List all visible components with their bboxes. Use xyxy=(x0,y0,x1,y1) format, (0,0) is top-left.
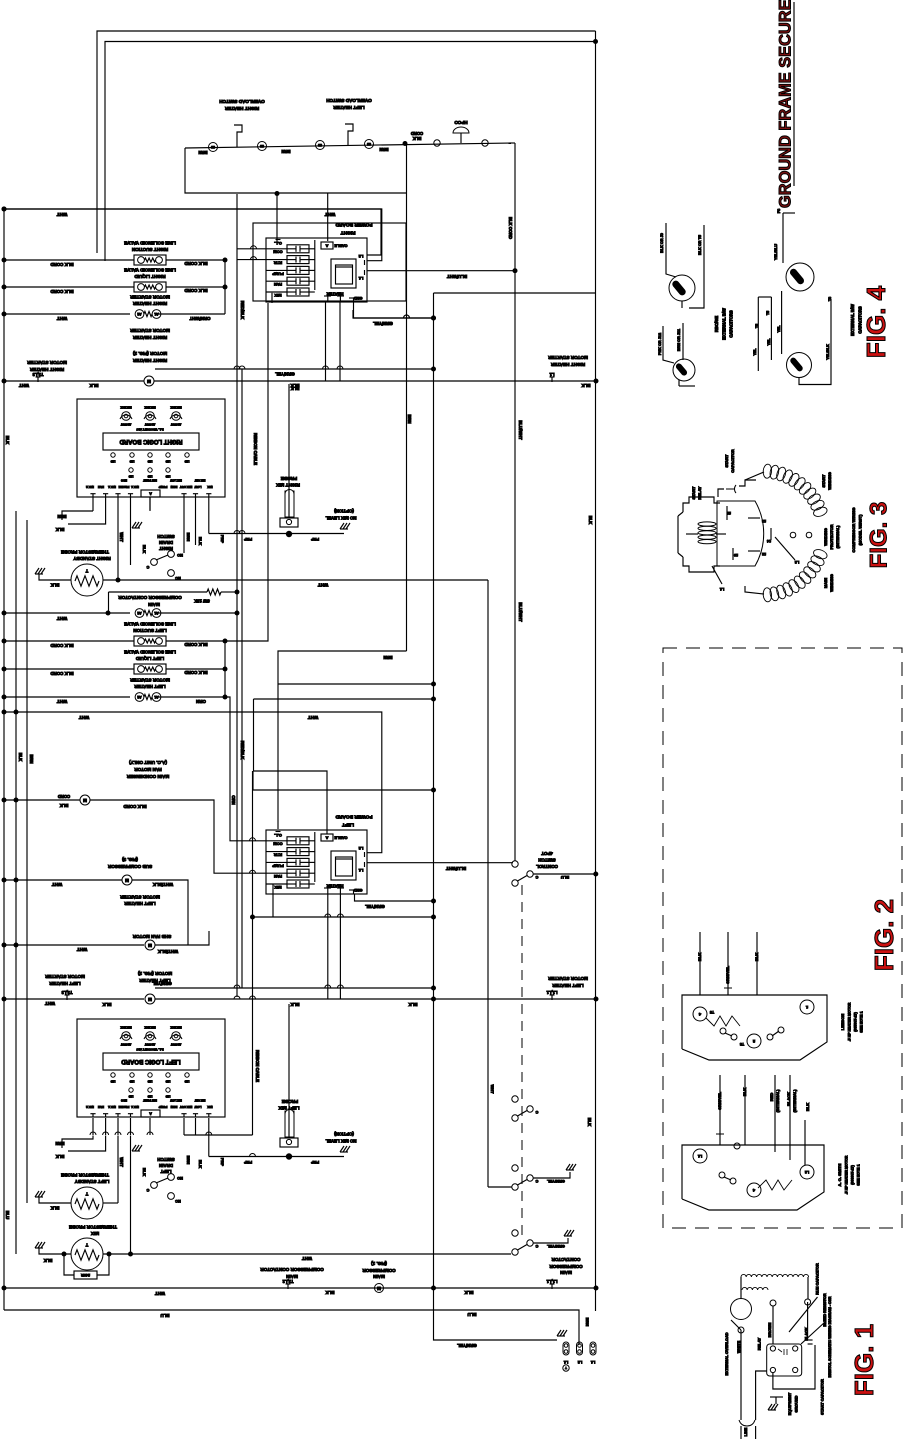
svg-text:BLK: BLK xyxy=(5,436,10,445)
svg-text:THERMISTOR PROBE: THERMISTOR PROBE xyxy=(61,1172,109,1177)
svg-text:MIX OUT: MIX OUT xyxy=(180,485,193,489)
svg-text:C: C xyxy=(146,565,149,569)
svg-text:PRP: PRP xyxy=(311,1160,320,1165)
svg-text:CORD: CORD xyxy=(58,794,70,799)
svg-text:(INTERNAL): (INTERNAL) xyxy=(792,1089,797,1113)
svg-text:MIX 1: MIX 1 xyxy=(108,1105,116,1109)
svg-text:COMPRESSOR: COMPRESSOR xyxy=(549,1264,583,1269)
svg-text:WHITE: WHITE xyxy=(737,1340,741,1353)
svg-text:RET PRINT: RET PRINT xyxy=(143,1098,157,1102)
svg-text:A2: A2 xyxy=(137,312,141,316)
svg-text:RUN CAPACITOR: RUN CAPACITOR xyxy=(816,1263,820,1295)
svg-text:SEE NOTE 1: SEE NOTE 1 xyxy=(859,1011,863,1032)
svg-text:ADJUST: ADJUST xyxy=(120,1042,131,1046)
svg-text:LOW: LOW xyxy=(194,1105,201,1109)
svg-text:SWITCH: SWITCH xyxy=(538,857,555,862)
svg-text:13: 13 xyxy=(762,519,766,523)
svg-text:MOTOR (FIG. 2): MOTOR (FIG. 2) xyxy=(132,351,167,356)
svg-text:BLK: BLK xyxy=(754,953,759,961)
svg-text:MIX MAX: MIX MAX xyxy=(120,1025,131,1029)
svg-text:LED: LED xyxy=(165,459,170,462)
svg-text:LEFT HEATER: LEFT HEATER xyxy=(134,684,166,689)
svg-text:(OPTION): (OPTION) xyxy=(334,508,354,513)
svg-text:YEL/BLK: YEL/BLK xyxy=(826,344,830,360)
svg-text:M: M xyxy=(377,1286,381,1291)
svg-text:T: T xyxy=(85,1242,88,1247)
svg-text:BLK: BLK xyxy=(51,1205,60,1210)
svg-text:BLU: BLU xyxy=(5,1211,10,1220)
svg-text:LED: LED xyxy=(110,1079,115,1082)
svg-text:L1,L1: L1,L1 xyxy=(546,1279,558,1284)
svg-text:COMPRESSOR: COMPRESSOR xyxy=(362,1268,396,1273)
svg-text:CAPACITOR: CAPACITOR xyxy=(730,449,735,473)
svg-text:SWITCH: SWITCH xyxy=(157,1157,174,1162)
svg-text:LED: LED xyxy=(165,474,170,477)
svg-text:COM: COM xyxy=(273,250,283,255)
svg-text:PRP: PRP xyxy=(220,1158,225,1167)
svg-text:LED: LED xyxy=(165,1094,170,1097)
svg-text:SUB COMPRESSOR: SUB COMPRESSOR xyxy=(107,864,152,869)
svg-text:WINDING: WINDING xyxy=(827,472,832,490)
svg-text:MOTOR STARTER: MOTOR STARTER xyxy=(130,294,170,299)
svg-text:T: T xyxy=(85,568,88,573)
svg-text:C: C xyxy=(535,875,538,879)
svg-text:RIGHT MIX: RIGHT MIX xyxy=(275,482,300,487)
svg-text:CORD: CORD xyxy=(411,131,423,136)
svg-text:GRN/YEL: GRN/YEL xyxy=(547,1179,565,1184)
svg-text:RED: RED xyxy=(769,1093,774,1102)
svg-text:BLK OR T5: BLK OR T5 xyxy=(698,235,702,255)
svg-text:RIGHT HEATER: RIGHT HEATER xyxy=(224,106,259,111)
svg-text:RIGHT HEATER: RIGHT HEATER xyxy=(550,362,585,367)
svg-text:T5: T5 xyxy=(710,1010,714,1014)
svg-text:RIBBON CABLE: RIBBON CABLE xyxy=(255,1050,260,1082)
svg-text:LEFT LOGIC BOARD: LEFT LOGIC BOARD xyxy=(121,1058,181,1064)
svg-text:BRN: BRN xyxy=(55,1141,64,1146)
svg-text:F8: F8 xyxy=(777,209,781,213)
svg-text:MIX MAX: MIX MAX xyxy=(144,405,155,409)
svg-text:BRISTOL SCHEMATIC WIRING DIAGR: BRISTOL SCHEMATIC WIRING DIAGRAM - CSR xyxy=(828,1296,832,1377)
svg-text:START: START xyxy=(821,474,826,488)
svg-text:14: 14 xyxy=(767,539,771,543)
svg-text:BLU/WHT: BLU/WHT xyxy=(446,866,467,871)
svg-text:T5: T5 xyxy=(766,311,770,315)
svg-text:LINE SOLENOID VALVE: LINE SOLENOID VALVE xyxy=(124,267,176,272)
svg-text:GRN/YEL: GRN/YEL xyxy=(547,1244,565,1249)
svg-text:PUMP: PUMP xyxy=(272,863,284,868)
svg-text:MIX 1: MIX 1 xyxy=(131,485,139,489)
svg-text:MIX: MIX xyxy=(274,885,281,890)
svg-text:BLACK: BLACK xyxy=(786,1092,791,1106)
svg-text:(035097-27): (035097-27) xyxy=(853,1011,857,1031)
svg-text:RET PRINT: RET PRINT xyxy=(143,478,157,482)
svg-text:BLK: BLK xyxy=(290,1002,300,1007)
svg-text:MAIN CONDENSER: MAIN CONDENSER xyxy=(126,774,169,779)
svg-text:BLK CORD: BLK CORD xyxy=(184,670,207,675)
svg-text:COMPRESSOR CONTACTOR: COMPRESSOR CONTACTOR xyxy=(118,595,182,600)
svg-text:BLK CORD: BLK CORD xyxy=(50,671,73,676)
svg-text:RTR: RTR xyxy=(274,853,282,858)
svg-text:MOTOR STARTER: MOTOR STARTER xyxy=(130,677,170,682)
svg-text:GROUND FRAME SECURELY: GROUND FRAME SECURELY xyxy=(776,0,794,208)
svg-text:YEL/BLU: YEL/BLU xyxy=(774,244,778,261)
svg-text:LEFT HEATER: LEFT HEATER xyxy=(49,981,81,986)
svg-text:96: 96 xyxy=(211,145,215,149)
svg-text:L1: L1 xyxy=(698,1154,702,1158)
svg-text:BRN: BRN xyxy=(57,514,66,519)
svg-text:C: C xyxy=(535,1244,538,1248)
svg-text:WHT: WHT xyxy=(79,715,90,720)
svg-text:PRP: PRP xyxy=(244,1160,253,1165)
svg-text:BLK CORD: BLK CORD xyxy=(184,642,207,647)
svg-text:NO MIX LEVEL: NO MIX LEVEL xyxy=(325,515,356,520)
svg-text:DRM: DRM xyxy=(170,485,177,489)
svg-text:EXTERNAL B/W: EXTERNAL B/W xyxy=(850,304,855,336)
svg-text:L1: L1 xyxy=(720,587,724,591)
svg-text:10: 10 xyxy=(734,553,738,557)
svg-text:RIGHT HEATER: RIGHT HEATER xyxy=(132,335,167,340)
svg-text:MOTOR STARTER: MOTOR STARTER xyxy=(120,894,160,899)
svg-text:LED: LED xyxy=(147,1079,152,1082)
svg-text:(A.C. UNIT ONLY): (A.C. UNIT ONLY) xyxy=(129,760,167,765)
svg-text:L1: L1 xyxy=(358,868,363,873)
svg-text:WINDING: WINDING xyxy=(829,574,834,592)
svg-text:LED: LED xyxy=(147,459,152,462)
svg-text:BLK CORD: BLK CORD xyxy=(184,288,207,293)
svg-text:L1: L1 xyxy=(564,1360,568,1364)
svg-text:WHT: WHT xyxy=(490,1084,495,1094)
svg-text:CONTROL: CONTROL xyxy=(536,864,558,869)
svg-text:.5 HP HEATER MOTOR: .5 HP HEATER MOTOR xyxy=(844,1155,848,1194)
svg-text:BLK: BLK xyxy=(588,516,593,525)
svg-text:LEESON: LEESON xyxy=(840,1014,845,1031)
svg-text:PROTECTOR: PROTECTOR xyxy=(829,524,834,549)
svg-text:PNK OR J12: PNK OR J12 xyxy=(658,333,662,355)
svg-text:MAIN: MAIN xyxy=(147,602,159,607)
svg-text:M: M xyxy=(148,943,152,948)
svg-text:T3,L3: T3,L3 xyxy=(61,990,73,995)
svg-text:BRN OR J11: BRN OR J11 xyxy=(677,329,681,351)
svg-text:LEFT HEATER: LEFT HEATER xyxy=(124,901,156,906)
svg-text:D.L. VISCOSITY ADJ: D.L. VISCOSITY ADJ xyxy=(136,427,164,431)
svg-text:ADJUST: ADJUST xyxy=(144,1042,155,1046)
svg-text:A2: A2 xyxy=(137,695,141,699)
svg-text:BLK: BLK xyxy=(697,953,702,961)
svg-text:BRN: BRN xyxy=(379,147,388,152)
svg-text:MCO: MCO xyxy=(121,1098,127,1102)
svg-text:ADJUST: ADJUST xyxy=(170,422,181,426)
svg-text:LED: LED xyxy=(110,459,115,462)
svg-text:RIGHT HEATER: RIGHT HEATER xyxy=(132,358,167,363)
svg-text:LED: LED xyxy=(184,1079,189,1082)
svg-text:PUMP: PUMP xyxy=(272,271,284,276)
svg-text:RBC/GE: RBC/GE xyxy=(714,316,719,332)
svg-text:BLK: BLK xyxy=(142,1168,147,1176)
svg-text:COM: COM xyxy=(273,842,283,847)
svg-text:MOTOR STARTER: MOTOR STARTER xyxy=(130,328,170,333)
svg-text:RIGHT HEATER: RIGHT HEATER xyxy=(29,367,64,372)
svg-text:WHT: WHT xyxy=(119,1157,124,1167)
svg-text:BRN: BRN xyxy=(198,150,207,155)
svg-text:EXTERNAL OVERLOAD: EXTERNAL OVERLOAD xyxy=(725,1332,729,1375)
svg-text:CABLE: CABLE xyxy=(334,836,348,840)
svg-text:T: T xyxy=(85,1191,88,1196)
svg-text:LED: LED xyxy=(184,459,189,462)
svg-text:YEL: YEL xyxy=(753,348,757,356)
svg-text:WHT: WHT xyxy=(302,1256,312,1261)
svg-text:4POT: 4POT xyxy=(541,851,553,856)
svg-text:LOW: LOW xyxy=(194,485,201,489)
svg-text:WHT: WHT xyxy=(155,1291,165,1296)
svg-text:L1,L1: L1,L1 xyxy=(546,990,558,995)
svg-text:C: C xyxy=(146,1188,149,1192)
svg-text:MOTOR STARTER: MOTOR STARTER xyxy=(548,355,588,360)
svg-text:LED: LED xyxy=(147,474,152,477)
svg-text:LEFT HEATER: LEFT HEATER xyxy=(333,105,365,110)
svg-text:M: M xyxy=(147,379,151,384)
svg-text:BLK: BLK xyxy=(291,386,300,391)
svg-text:.5 HP HEATER MOTOR: .5 HP HEATER MOTOR xyxy=(847,1002,851,1041)
svg-text:DRAIN: DRAIN xyxy=(159,540,173,545)
svg-text:BLK: BLK xyxy=(44,1258,53,1263)
svg-text:PRP: PRP xyxy=(220,535,225,544)
svg-text:A: A xyxy=(149,1112,152,1116)
svg-text:HPCO: HPCO xyxy=(454,120,468,125)
svg-text:PRP: PRP xyxy=(311,537,320,542)
svg-text:MOTOR STARTER: MOTOR STARTER xyxy=(45,974,85,979)
svg-text:RIGHT LOGIC BOARD: RIGHT LOGIC BOARD xyxy=(119,438,183,444)
svg-text:GRN/YEL: GRN/YEL xyxy=(275,371,295,376)
svg-text:ADJUST: ADJUST xyxy=(144,422,155,426)
svg-text:O.L.: O.L. xyxy=(274,833,282,838)
svg-text:RIGHT: RIGHT xyxy=(340,230,355,236)
svg-text:BLU/WHT: BLU/WHT xyxy=(447,274,468,279)
svg-text:RIGHT STANDBY: RIGHT STANDBY xyxy=(73,556,110,561)
svg-text:NC: NC xyxy=(175,1199,181,1203)
svg-text:LEFT: LEFT xyxy=(160,1169,171,1174)
svg-text:LEFT: LEFT xyxy=(342,822,354,828)
svg-text:WHT: WHT xyxy=(52,882,63,887)
svg-text:L2: L2 xyxy=(578,1360,582,1364)
svg-text:WHT/BLK: WHT/BLK xyxy=(152,882,173,887)
svg-text:DRM: DRM xyxy=(170,1105,177,1109)
svg-text:BRN: BRN xyxy=(29,754,34,763)
svg-text:L1: L1 xyxy=(358,276,363,281)
svg-text:BRN: BRN xyxy=(383,655,392,660)
svg-text:FIG. 1: FIG. 1 xyxy=(849,1324,879,1396)
svg-text:LED: LED xyxy=(128,1094,133,1097)
svg-text:BLK: BLK xyxy=(742,1088,747,1096)
svg-text:EQUIPMENT: EQUIPMENT xyxy=(788,1392,792,1415)
svg-text:PROBE: PROBE xyxy=(119,485,130,489)
svg-text:M: M xyxy=(125,878,129,883)
svg-text:WHT: WHT xyxy=(57,616,68,621)
svg-text:NO MIX LEVEL: NO MIX LEVEL xyxy=(325,1138,356,1143)
svg-text:WHT: WHT xyxy=(57,316,68,321)
svg-text:MIX: MIX xyxy=(207,1105,212,1109)
svg-text:96: 96 xyxy=(318,143,322,147)
svg-text:240R: 240R xyxy=(81,1273,90,1277)
svg-text:BRN: BRN xyxy=(186,1156,191,1165)
svg-text:MOTOR STARTER: MOTOR STARTER xyxy=(27,360,67,365)
svg-text:START CAPACITOR: START CAPACITOR xyxy=(821,1379,825,1415)
svg-text:LEFT SUCTION: LEFT SUCTION xyxy=(133,628,167,633)
svg-text:MIX MAX: MIX MAX xyxy=(120,405,131,409)
svg-text:WHT: WHT xyxy=(77,947,88,952)
svg-text:L1: L1 xyxy=(549,372,555,377)
svg-text:WHT: WHT xyxy=(119,532,124,542)
svg-text:M: M xyxy=(83,798,87,803)
svg-text:WHT: WHT xyxy=(45,1001,55,1006)
svg-text:COMPRESSOR WIRING: COMPRESSOR WIRING xyxy=(851,508,856,553)
svg-text:T5: T5 xyxy=(755,324,759,328)
svg-text:T: T xyxy=(565,1366,567,1370)
svg-text:BLK: BLK xyxy=(581,383,591,388)
svg-text:BRN: BRN xyxy=(281,149,290,154)
svg-text:COMPRESSOR CONTACTOR: COMPRESSOR CONTACTOR xyxy=(260,1267,324,1272)
svg-text:BLK: BLK xyxy=(198,537,203,545)
svg-text:LED: LED xyxy=(147,1094,152,1097)
svg-text:BLK: BLK xyxy=(89,383,99,388)
svg-text:PRP: PRP xyxy=(244,537,253,542)
svg-text:MIX 1: MIX 1 xyxy=(131,1105,139,1109)
svg-text:11: 11 xyxy=(727,511,731,515)
svg-text:ADJUST: ADJUST xyxy=(170,1042,181,1046)
svg-text:MIX CNT: MIX CNT xyxy=(194,1098,205,1102)
svg-text:BLK: BLK xyxy=(56,527,65,532)
svg-text:DRAIN: DRAIN xyxy=(159,1163,173,1168)
svg-text:YEL: YEL xyxy=(777,325,781,333)
svg-text:YEL: YEL xyxy=(767,338,771,346)
svg-text:BLU: BLU xyxy=(561,875,569,880)
svg-text:BLK: BLK xyxy=(51,582,60,587)
svg-text:O.L.: O.L. xyxy=(274,241,282,246)
svg-text:WINDING: WINDING xyxy=(823,528,828,546)
svg-text:BRN: BRN xyxy=(585,1318,590,1327)
svg-text:BLK: BLK xyxy=(325,1290,335,1295)
svg-text:CONTACTOR: CONTACTOR xyxy=(551,1257,581,1262)
svg-text:LED: LED xyxy=(129,1079,134,1082)
svg-text:A2: A2 xyxy=(137,611,141,615)
svg-text:SEE NOTE 1: SEE NOTE 1 xyxy=(856,1164,860,1185)
svg-text:(OPTION): (OPTION) xyxy=(334,1131,354,1136)
svg-text:93: 93 xyxy=(367,142,371,146)
svg-text:EXTERNAL B/W: EXTERNAL B/W xyxy=(722,308,727,340)
svg-text:C: C xyxy=(535,1110,538,1114)
svg-text:RED/BLK: RED/BLK xyxy=(240,301,245,320)
svg-text:(FIG. 3): (FIG. 3) xyxy=(122,857,138,862)
svg-text:SHB FAN MOTOR: SHB FAN MOTOR xyxy=(132,934,171,939)
svg-text:GRN/YEL: GRN/YEL xyxy=(717,1092,722,1110)
svg-text:RIGHT SUCTION: RIGHT SUCTION xyxy=(131,247,168,252)
svg-text:BLK CORD: BLK CORD xyxy=(50,262,73,267)
svg-text:C: C xyxy=(535,1179,538,1183)
svg-text:MIX LOW: MIX LOW xyxy=(170,1098,182,1102)
svg-text:FIG. 2: FIG. 2 xyxy=(869,899,899,971)
svg-text:L2: L2 xyxy=(358,846,363,851)
svg-text:A: A xyxy=(149,492,152,496)
svg-text:LEFT HEATER: LEFT HEATER xyxy=(552,983,584,988)
svg-text:MAIN: MAIN xyxy=(372,1274,384,1279)
svg-text:NC: NC xyxy=(175,576,181,580)
svg-text:LINE: LINE xyxy=(744,1427,748,1436)
svg-text:BLK: BLK xyxy=(60,803,69,808)
svg-text:MIX: MIX xyxy=(274,293,281,298)
svg-text:PROBE: PROBE xyxy=(119,1105,130,1109)
svg-text:NO: NO xyxy=(177,1176,183,1180)
svg-text:BLK CORD: BLK CORD xyxy=(50,289,73,294)
svg-text:T8: T8 xyxy=(828,297,832,301)
svg-text:(003097-27): (003097-27) xyxy=(850,1164,854,1184)
svg-text:WHT/BLK: WHT/BLK xyxy=(157,949,178,954)
svg-text:GRN/YEL: GRN/YEL xyxy=(457,1343,477,1348)
svg-text:MAIN: MAIN xyxy=(823,578,828,588)
svg-text:BRN: BRN xyxy=(407,414,412,423)
svg-text:T8: T8 xyxy=(740,1042,744,1046)
svg-text:SW 15K: SW 15K xyxy=(194,598,210,603)
svg-text:NO: NO xyxy=(177,553,183,557)
svg-text:(INTERNAL): (INTERNAL) xyxy=(775,1089,780,1113)
svg-text:BLU: BLU xyxy=(160,1313,169,1318)
svg-text:RELAY: RELAY xyxy=(757,1337,761,1350)
svg-text:RIGHT: RIGHT xyxy=(159,546,173,551)
svg-text:PROBE: PROBE xyxy=(282,1099,298,1104)
svg-text:ORN: ORN xyxy=(231,795,236,804)
svg-text:RTR: RTR xyxy=(274,261,282,266)
svg-text:GRN/YEL: GRN/YEL xyxy=(365,904,385,909)
svg-text:GRN/YEL: GRN/YEL xyxy=(725,966,730,984)
svg-text:FAN MOTOR: FAN MOTOR xyxy=(134,767,162,772)
svg-text:MIX MAX: MIX MAX xyxy=(170,405,181,409)
svg-text:MIX MAX: MIX MAX xyxy=(170,1025,181,1029)
svg-text:L2: L2 xyxy=(795,560,799,564)
svg-text:WHT: WHT xyxy=(57,212,68,217)
svg-text:BLK: BLK xyxy=(18,753,23,762)
svg-text:BRN: BRN xyxy=(186,533,191,542)
svg-text:A. O. SMITH: A. O. SMITH xyxy=(837,1163,842,1186)
svg-text:LINE SOLENOID VALVE: LINE SOLENOID VALVE xyxy=(124,649,176,654)
svg-text:MIX 2: MIX 2 xyxy=(86,1105,94,1109)
svg-text:MOTOR STARTER: MOTOR STARTER xyxy=(548,976,588,981)
svg-text:WHT: WHT xyxy=(325,212,336,217)
svg-text:WHT: WHT xyxy=(57,699,68,704)
svg-text:BLK: BLK xyxy=(805,1103,810,1111)
svg-text:L2: L2 xyxy=(805,1170,809,1174)
svg-text:12: 12 xyxy=(762,552,766,556)
svg-text:BLK: BLK xyxy=(142,545,147,553)
svg-text:MCO: MCO xyxy=(121,478,127,482)
svg-text:CAPACITORS: CAPACITORS xyxy=(729,310,734,338)
svg-text:MIX: MIX xyxy=(207,485,212,489)
svg-text:GRN/YEL: GRN/YEL xyxy=(373,321,393,326)
svg-text:LEFT STANDBY: LEFT STANDBY xyxy=(75,1179,110,1184)
svg-text:RIGHT HEATER: RIGHT HEATER xyxy=(132,301,167,306)
svg-text:MIX: MIX xyxy=(90,1231,99,1236)
svg-text:MIX 2: MIX 2 xyxy=(86,485,94,489)
svg-text:MIX OUT: MIX OUT xyxy=(180,1105,193,1109)
svg-text:MIX LOW: MIX LOW xyxy=(170,478,182,482)
svg-text:ADJUST: ADJUST xyxy=(120,422,131,426)
svg-text:LED: LED xyxy=(128,474,133,477)
svg-text:ORN: ORN xyxy=(196,699,206,704)
svg-text:BLU/WHT: BLU/WHT xyxy=(518,420,523,440)
svg-text:LED: LED xyxy=(129,459,134,462)
svg-text:BLK CORD: BLK CORD xyxy=(508,217,513,239)
svg-text:POWER BOARD: POWER BOARD xyxy=(335,814,373,820)
svg-text:THERMISTOR PROBE: THERMISTOR PROBE xyxy=(61,549,109,554)
svg-text:L1: L1 xyxy=(591,1360,595,1364)
svg-text:RIGHT LIQUID: RIGHT LIQUID xyxy=(134,274,166,279)
